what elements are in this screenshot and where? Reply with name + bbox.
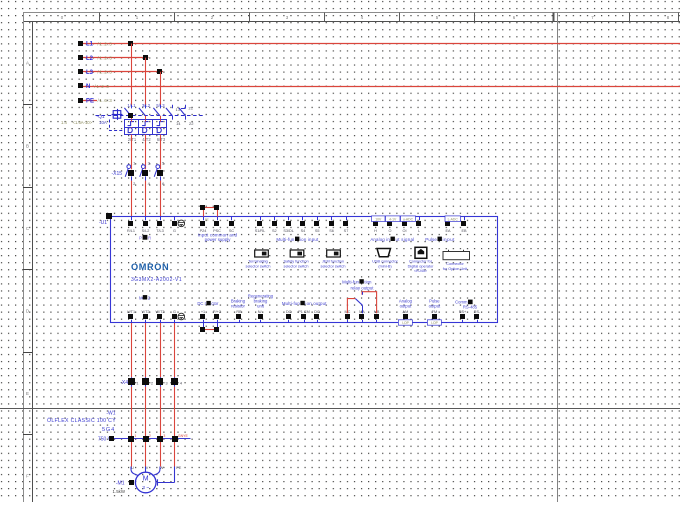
svg-text:nc: nc [205, 217, 209, 221]
svg-text:U/T1: U/T1 [127, 310, 135, 314]
svg-text:OI: OI [402, 229, 406, 233]
svg-text:ÖLFLEX CLASSIC 100 CY: ÖLFLEX CLASSIC 100 CY [47, 417, 116, 424]
svg-text:21: 21 [189, 106, 194, 111]
svg-text:RB: RB [236, 310, 242, 314]
cable W1 tag and data [47, 411, 116, 443]
wire U into motor [131, 467, 139, 476]
wire L1 to breaker [131, 44, 133, 106]
svg-text:tion: tion [364, 279, 372, 284]
svg-text:ion input: ion input [300, 237, 319, 242]
analog output default value box [398, 320, 412, 325]
terminal X4:1 [128, 377, 139, 387]
terminal X4:4 [171, 377, 183, 387]
svg-text:-U1: -U1 [99, 220, 107, 226]
svg-text:resistor: resistor [231, 303, 245, 308]
svg-text:USB connector: USB connector [372, 260, 398, 264]
svg-text:RS-485: RS-485 [463, 304, 478, 309]
inverter terminal T/L3 [156, 217, 164, 234]
inverter terminal G [172, 310, 177, 323]
caption motor output [139, 295, 151, 300]
svg-text:N/-: N/- [258, 310, 264, 314]
svg-text:<1.6A-10>: <1.6A-10> [73, 120, 93, 125]
svg-text:unit: unit [257, 304, 265, 309]
svg-text:P: P [139, 235, 142, 240]
svg-text:FM: FM [432, 310, 437, 314]
svg-text:S6: S6 [329, 229, 334, 233]
svg-text:2: 2 [149, 434, 151, 438]
inverter terminal EA [445, 217, 451, 234]
selector switch icon 1 [255, 250, 269, 257]
svg-text:S3/DL: S3/DL [283, 229, 294, 233]
svg-text:Terminating: Terminating [248, 260, 268, 264]
node L2 tap junction [143, 55, 148, 60]
drawing frame left band [23, 13, 33, 503]
caption multi-function output [282, 301, 327, 306]
svg-text:1.4: 1.4 [61, 120, 67, 125]
svg-text:I-OP: I-OP [431, 321, 439, 325]
svg-text:S1/RL: S1/RL [255, 229, 266, 233]
inverter terminal S6 [329, 217, 334, 234]
svg-text:2/T1: 2/T1 [128, 137, 137, 142]
svg-text:R: R [148, 235, 151, 240]
breaker Q1 thermal element pole 3 [157, 120, 163, 126]
inverter model text [131, 277, 182, 283]
digital operator connector icon [408, 247, 434, 273]
svg-text:3: 3 [163, 434, 165, 438]
caption braking resistor [231, 299, 246, 309]
relay contact blue stub [362, 292, 364, 295]
wire breaker to terminal 3 [145, 135, 147, 170]
svg-text:3G3MX2-A2002-V1: 3G3MX2-A2002-V1 [131, 277, 182, 283]
wire PE into motor [158, 467, 175, 486]
breaker Q1 pole 2 contact [139, 103, 151, 119]
svg-text:AM: AM [403, 310, 409, 314]
svg-text:S5: S5 [315, 229, 320, 233]
caption comm RS-485 [455, 299, 478, 309]
breaker Q1 pole 3 contact [153, 103, 165, 119]
selector switch captions [246, 260, 346, 269]
svg-text:input: input [443, 237, 456, 242]
terminal X15:1 [125, 161, 136, 187]
inverter terminal U/T1 [127, 310, 135, 323]
wire terminal to inverter input 2 [145, 181, 147, 217]
inverter terminal RB [236, 310, 242, 323]
svg-text:Multi-fun: Multi-fun [342, 279, 359, 284]
caption multi-function input [276, 237, 319, 242]
svg-text:ion output: ion output [305, 301, 327, 306]
wire rail PE [78, 98, 112, 104]
svg-text:Digital operator: Digital operator [408, 264, 434, 268]
inverter terminal S4 [300, 217, 305, 234]
inverter U1 enclosure box [106, 213, 498, 323]
OMRON logo [131, 262, 169, 272]
wire V into motor [145, 467, 147, 473]
circuit breaker Q1 dashed linkage line [96, 115, 204, 117]
inverter terminal PSC [213, 217, 221, 234]
analog input default value boxes [372, 216, 461, 222]
svg-text:<RJ45>: <RJ45> [414, 269, 428, 273]
inverter terminal MA [359, 310, 365, 323]
terminal strip X4 tag [120, 380, 128, 386]
inverter terminal W/T3 [155, 310, 164, 323]
svg-text:DO: DO [286, 310, 292, 314]
svg-text:RS+: RS+ [459, 310, 467, 314]
selector switch icon 3 [327, 250, 341, 257]
cable W1 core marker GNYE [172, 434, 188, 442]
svg-text:ctor: ctor [211, 301, 219, 306]
inverter terminal L [416, 217, 421, 234]
svg-text:R/L1: R/L1 [127, 229, 135, 233]
svg-text:H: H [374, 229, 377, 233]
caption input common and power supply [198, 232, 238, 242]
breaker Q1 aux contact 13-14 [166, 105, 181, 126]
svg-text:L-ADC: L-ADC [448, 217, 459, 221]
svg-text:22: 22 [189, 121, 194, 126]
wire breaker to terminal 1 [131, 135, 133, 170]
wire rail N [78, 83, 680, 90]
svg-text:N: N [86, 84, 90, 90]
svg-text:O: O [389, 229, 392, 233]
inverter terminal S5 [314, 217, 320, 234]
svg-text:selector switch: selector switch [284, 264, 309, 268]
inverter U1 tag [99, 220, 107, 226]
svg-text:U: U [131, 466, 134, 470]
svg-text:G: G [173, 229, 176, 233]
page divider vertical line [557, 13, 559, 503]
inverter bottom earth symbol [178, 313, 185, 320]
cable W1 core marker 3 [157, 434, 165, 442]
svg-text:5G4: 5G4 [102, 427, 115, 433]
inverter terminal +1 [200, 310, 205, 323]
terminal X4:2 [142, 377, 154, 387]
node breaker pole1 pivot [128, 113, 133, 118]
svg-text:/1.2:3: /1.2:3 [98, 42, 113, 47]
svg-text:+1: +1 [201, 310, 205, 314]
svg-text:GNYE: GNYE [178, 434, 189, 438]
caption pulse output [429, 299, 441, 309]
inverter terminal S3/DL [283, 217, 294, 234]
svg-text:Pulse: Pulse [425, 237, 437, 242]
terminal strip X15 tag [111, 171, 122, 177]
wire terminal to inverter input 1 [131, 181, 133, 217]
inverter top earth symbol [178, 220, 185, 227]
svg-text:S2: S2 [272, 229, 277, 233]
svg-text:L1: L1 [86, 42, 94, 48]
wire inverter output 4 to X4 [174, 323, 176, 377]
motor M1 rating [113, 489, 126, 494]
svg-text:EB: EB [461, 229, 467, 233]
svg-text:u-ADC: u-ADC [403, 217, 414, 221]
breaker Q1 aux contact 21-22 [179, 105, 194, 126]
jumper P24-PSC [200, 205, 219, 221]
svg-text:S/L2: S/L2 [142, 229, 150, 233]
caption analog input signal [370, 237, 414, 242]
svg-text:Connector: Connector [446, 262, 464, 266]
node L3 tap junction [157, 69, 162, 74]
svg-text:Analog in: Analog in [370, 237, 390, 242]
terminal X15:5 [154, 161, 165, 187]
inverter terminal S7 [343, 217, 348, 234]
svg-text:JEM function: JEM function [322, 260, 344, 264]
wire L2 to breaker [145, 58, 147, 105]
motor wire labels U V W PE [131, 466, 182, 470]
svg-text:4-1V: 4-1V [389, 217, 397, 221]
terminal X4:3 [156, 377, 168, 387]
inverter terminal MC [344, 310, 350, 323]
inverter terminal H [373, 217, 378, 234]
svg-text:ut signal: ut signal [396, 237, 415, 242]
svg-text:output: output [429, 303, 441, 308]
svg-text:Safety function: Safety function [283, 260, 308, 264]
svg-text:I-OP: I-OP [402, 321, 410, 325]
svg-text:-X15: -X15 [111, 171, 122, 177]
wire terminal to inverter input 3 [160, 181, 162, 217]
breaker Q1 magnetic element pole 3 [157, 127, 161, 133]
svg-text:S4: S4 [301, 229, 306, 233]
inverter terminal G [172, 217, 177, 234]
svg-text:1: 1 [134, 434, 136, 438]
svg-text:-X4: -X4 [120, 380, 128, 386]
inverter terminal MB [374, 310, 380, 323]
inverter terminal S2 [272, 217, 277, 234]
caption multi-function relay output [342, 279, 374, 290]
wire inverter output 1 to X4 [131, 323, 133, 377]
svg-text:P1 CM: P1 CM [298, 310, 310, 314]
svg-text:C: C [26, 226, 29, 231]
svg-text:L2: L2 [86, 56, 94, 62]
svg-text:B: B [26, 144, 29, 149]
wire X4 to cable W1 core 1 [131, 387, 133, 467]
breaker Q1 thermal element pole 2 [142, 120, 148, 126]
caption pulse input [425, 237, 455, 242]
caption analog output [399, 299, 413, 309]
USB connector icon [372, 249, 398, 269]
wire rail L2 [78, 55, 149, 62]
cable W1 line [109, 436, 191, 441]
node L1 tap junction [128, 41, 133, 46]
inverter terminal P24 [200, 217, 207, 234]
svg-text:/1.6:3: /1.6:3 [98, 98, 113, 103]
inverter terminal DC [314, 310, 320, 323]
svg-text:14: 14 [176, 121, 181, 126]
wire X4 to cable W1 core 2 [145, 387, 147, 467]
svg-text:F: F [26, 474, 29, 479]
svg-text:D: D [26, 309, 29, 314]
breaker Q1 magnetic element pole 1 [128, 127, 132, 133]
svg-text:V/T2: V/T2 [141, 310, 149, 314]
svg-text:-Q1: -Q1 [97, 114, 105, 120]
svg-text:4/T2: 4/T2 [142, 137, 151, 142]
svg-text:Multi-fun: Multi-fun [276, 237, 295, 242]
svg-text:1.5kW: 1.5kW [113, 489, 126, 494]
breaker Q1 bottom terminal labels [128, 137, 166, 142]
svg-text:power supply: power supply [205, 237, 232, 242]
wire breaker to terminal 5 [160, 135, 162, 170]
inverter terminal EB [461, 217, 467, 234]
caption regenerative braking unit [248, 294, 274, 309]
svg-text:Connector for: Connector for [409, 260, 433, 264]
wire inverter output 3 to X4 [160, 323, 162, 377]
inverter terminal V/T2 [141, 310, 149, 323]
breaker Q1 trip linkage dashed [110, 120, 124, 131]
svg-text:for Option Unit: for Option Unit [443, 267, 468, 271]
relay changeover contact wiring [347, 292, 376, 314]
svg-text:/1.2:3: /1.2:3 [95, 84, 110, 89]
wire X4 to cable W1 core 3 [160, 387, 162, 467]
wire rail L3 [78, 69, 163, 76]
svg-text:G: G [173, 310, 176, 314]
svg-text:A: A [26, 61, 29, 66]
svg-text:DC: DC [314, 310, 320, 314]
svg-text:V: V [146, 466, 149, 470]
wire X4 to cable W1 core 4 [174, 387, 176, 467]
svg-text:T/L3: T/L3 [156, 229, 164, 233]
svg-text:/1.2:3: /1.2:3 [98, 70, 113, 75]
svg-text:Multi-fun: Multi-fun [282, 301, 301, 306]
terminal X15:3 [140, 161, 151, 187]
caption DC reactor [197, 301, 219, 306]
jumper +1 to P/+2 [200, 323, 219, 332]
inverter terminal AM [403, 310, 409, 323]
breaker Q1 setting text [61, 120, 107, 125]
inverter terminal P/+2 [213, 310, 221, 323]
svg-text:PE: PE [86, 98, 94, 104]
breaker Q1 trip unit box [124, 120, 167, 135]
svg-text:E: E [26, 391, 29, 396]
cable W1 core marker 1 [128, 434, 136, 442]
motor M1 [129, 472, 156, 493]
wire W into motor [152, 467, 160, 476]
svg-text:DC r: DC r [197, 301, 206, 306]
wire rail L1 [78, 41, 680, 48]
svg-text:L: L [418, 229, 420, 233]
svg-text:6/T3: 6/T3 [157, 137, 166, 142]
svg-text:W/T3: W/T3 [155, 310, 164, 314]
inverter terminal SC [229, 217, 235, 234]
selector switch icon 2 [290, 250, 304, 257]
breaker Q1 magnetic element pole 2 [143, 127, 147, 133]
wire inverter output 2 to X4 [145, 323, 147, 377]
inverter terminal R/L1 [127, 217, 135, 234]
inverter terminal RS+ [459, 310, 467, 323]
svg-text:-W1: -W1 [106, 411, 115, 417]
svg-text:S7: S7 [344, 229, 349, 233]
svg-text:selector switch: selector switch [246, 264, 271, 268]
svg-text:10A: 10A [99, 120, 107, 125]
svg-text:10V: 10V [375, 217, 382, 221]
svg-text:relay output: relay output [351, 286, 375, 291]
svg-text:selector switch: selector switch [321, 264, 346, 268]
caption POWER [139, 235, 151, 240]
inverter terminal N/- [258, 310, 264, 323]
svg-text:RS-: RS- [474, 310, 481, 314]
breaker Q1 manual operator [112, 109, 123, 120]
svg-text:M: M [139, 295, 143, 300]
option unit connector icon [443, 250, 470, 271]
breaker Q1 pole 1 contact [124, 103, 136, 119]
svg-text:/1.2:3: /1.2:3 [98, 56, 113, 61]
svg-text:EA: EA [445, 229, 451, 233]
inverter terminal RS- [474, 310, 481, 323]
inverter terminal DO [286, 310, 292, 323]
svg-text:OMRON: OMRON [131, 262, 169, 272]
svg-text:(mini-B): (mini-B) [378, 264, 392, 268]
svg-text:3 ~: 3 ~ [142, 485, 149, 491]
svg-text:output: output [400, 303, 412, 308]
wire L3 to breaker [160, 72, 162, 105]
svg-text:PE: PE [176, 466, 182, 470]
breaker Q1 thermal element pole 1 [128, 120, 134, 126]
svg-text:3/L2: 3/L2 [142, 103, 151, 108]
breaker Q1 tag [97, 114, 105, 120]
inverter terminal P1 CM [298, 310, 310, 323]
svg-text:M: M [143, 476, 149, 483]
inverter terminal S1/RL [255, 217, 266, 234]
inverter terminal OI [402, 217, 407, 234]
svg-text:-M1: -M1 [116, 480, 125, 486]
cable W1 core marker 2 [143, 434, 151, 442]
pulse output default value box [427, 320, 441, 325]
motor M1 tag [116, 480, 125, 486]
svg-text:P/+2: P/+2 [213, 310, 221, 314]
inverter terminal FM [432, 310, 437, 323]
page bottom horizontal line [0, 408, 680, 410]
inverter terminal S/L2 [142, 217, 150, 234]
inverter terminal O [387, 217, 392, 234]
svg-text:L3: L3 [86, 70, 94, 76]
drawing frame top band [23, 13, 680, 22]
